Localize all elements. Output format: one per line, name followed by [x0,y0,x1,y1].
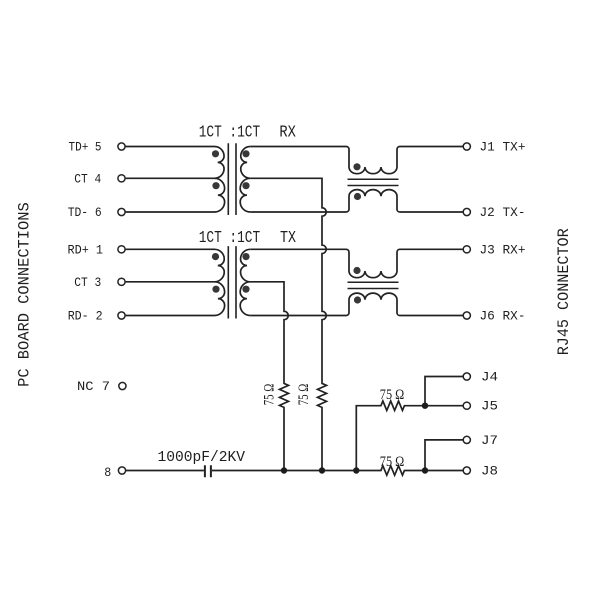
transformer T1 secondary winding lower [240,178,250,212]
svg-text:75 Ω: 75 Ω [296,383,312,405]
wire CT3 to T2 primary center tap [126,281,215,283]
svg-text:75 Ω: 75 Ω [380,387,405,403]
wire RD-2 to T2 primary [126,315,215,317]
svg-text:J8: J8 [481,464,498,479]
wire branch to J7 [425,440,463,471]
terminal circle pin 5 [118,143,125,150]
svg-text:PC BOARD CONNECTIONS: PC BOARD CONNECTIONS [16,202,34,387]
svg-text:75 Ω: 75 Ω [261,383,277,405]
wire T1 secondary bottom to choke L1 [250,211,343,213]
transformer T2 primary winding upper [215,249,225,281]
svg-text:RD- 2: RD- 2 [68,309,103,324]
junction node J4/J5 [422,403,428,409]
junction node bus at R3 branch [353,467,359,473]
junction node J7/J8 [422,467,428,473]
wire branch to J4 [425,377,463,406]
wire T2 secondary top to choke L2 [250,248,343,250]
svg-text:1CT :1CT: 1CT :1CT [199,124,261,143]
transformer T2 core [228,246,236,318]
svg-text:RD+ 1: RD+ 1 [68,242,104,257]
svg-text:J4: J4 [481,370,498,385]
svg-text:J7: J7 [481,433,498,448]
transformer T1 secondary winding upper [241,147,251,179]
svg-text:TD+ 5: TD+ 5 [69,140,102,155]
svg-text:J2 TX-: J2 TX- [480,205,526,220]
terminal circle J7 [463,436,470,443]
terminal circle pin 3 [118,278,125,285]
svg-text:J6 RX-: J6 RX- [480,309,526,324]
terminal circle pin 8 [118,467,125,474]
choke L2 top winding [343,249,403,277]
wire bottom bus pin8 to capacitor [126,470,204,472]
wire bottom bus with resistor R4 75ohm to J8 [212,466,463,475]
svg-text:8: 8 [104,465,111,480]
polarity dot T2 secondary upper [242,253,249,260]
transformer T2 secondary winding lower [240,282,250,316]
choke L1 core [348,179,399,185]
polarity dot choke L1 bottom [354,193,361,200]
junction node bus at R2 [319,467,325,473]
terminal circle pin 7 NC [119,382,126,389]
transformer T2 secondary winding upper [241,249,251,281]
wire T2 secondary bottom to choke L2 [250,315,343,317]
wire T2 center tap down with hop and resistor R1 75ohm [250,282,288,471]
polarity dot T1 secondary upper [242,150,249,157]
choke L2 core [348,282,399,288]
terminal circle J6 [463,312,470,319]
terminal circle J4 [463,373,470,380]
wire choke L1 to J1 [403,146,463,148]
terminal circle pin 2 [118,312,125,319]
svg-text:J5: J5 [481,399,498,414]
transformer T2 primary winding lower [215,282,225,316]
choke L1 bottom winding [343,190,403,212]
svg-text:J1 TX+: J1 TX+ [480,140,526,155]
wire bus up to resistor R3 75ohm to J5 [356,401,463,471]
svg-text:1000pF/2KV: 1000pF/2KV [158,449,246,466]
svg-text:RX: RX [279,124,296,143]
wire CT4 to T1 primary center tap [126,177,215,179]
transformer T1 primary winding lower [215,178,225,212]
polarity dot T2 primary lower [212,286,219,293]
svg-text:1CT :1CT: 1CT :1CT [199,229,261,248]
wire RD+1 to T2 primary [126,248,215,250]
polarity dot T1 secondary lower [242,182,249,189]
choke L2 bottom winding [343,293,403,315]
polarity dot T1 primary lower [212,182,219,189]
polarity dot choke L2 bottom [354,296,361,303]
polarity dot T1 primary upper [212,150,219,157]
transformer T1 core [228,143,236,215]
wire choke L2 to J3 [403,248,463,250]
svg-text:RJ45 CONNECTOR: RJ45 CONNECTOR [555,228,573,355]
wire T1 center tap down with hops and resistor R2 75ohm [250,178,326,470]
wire T1 secondary top to choke L1 [250,146,343,148]
polarity dot choke L2 top [353,267,360,274]
svg-text:TX: TX [280,229,296,248]
terminal circle pin 4 [118,175,125,182]
terminal circle J1 [463,143,470,150]
svg-text:NC 7: NC 7 [77,379,110,394]
wire TD-6 to T1 primary [126,211,215,213]
terminal circle J3 [463,246,470,253]
junction node bus at R1 [281,467,287,473]
polarity dot choke L1 top [353,163,360,170]
svg-text:J3 RX+: J3 RX+ [480,242,526,257]
terminal circle pin 1 [118,246,125,253]
svg-text:CT 3: CT 3 [74,275,101,290]
svg-text:CT 4: CT 4 [74,171,101,186]
svg-text:TD- 6: TD- 6 [68,205,102,220]
terminal circle pin 6 [118,208,125,215]
wire TD+5 to T1 primary [126,146,215,148]
wire choke L2 to J6 [403,315,463,317]
transformer T1 primary winding upper [215,147,225,179]
terminal circle J8 [463,467,470,474]
polarity dot T2 primary upper [212,253,219,260]
choke L1 top winding [343,147,403,174]
terminal circle J5 [463,402,470,409]
svg-text:75 Ω: 75 Ω [380,454,405,470]
capacitor C1 1000pF plates [205,465,211,477]
polarity dot T2 secondary lower [242,286,249,293]
wire choke L1 to J2 [403,211,463,213]
terminal circle J2 [463,208,470,215]
